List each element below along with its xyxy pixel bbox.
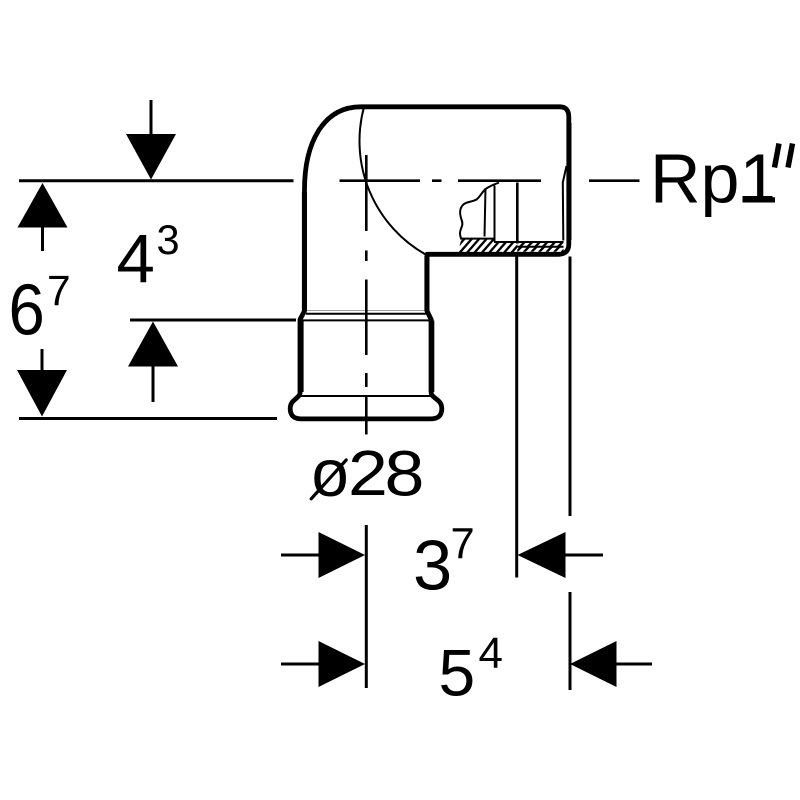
svg-text:3: 3 — [413, 526, 452, 605]
svg-text:4: 4 — [479, 629, 503, 678]
svg-text:8: 8 — [385, 438, 425, 510]
svg-text:o: o — [312, 436, 349, 511]
svg-text:3: 3 — [157, 216, 180, 263]
svg-text:Rp1: Rp1 — [650, 139, 778, 217]
svg-text:4: 4 — [117, 220, 155, 297]
svg-text:7: 7 — [451, 520, 475, 568]
svg-text:5: 5 — [439, 635, 476, 709]
svg-text:7: 7 — [47, 268, 71, 315]
svg-text:2: 2 — [348, 438, 388, 510]
svg-text:6: 6 — [9, 269, 45, 350]
